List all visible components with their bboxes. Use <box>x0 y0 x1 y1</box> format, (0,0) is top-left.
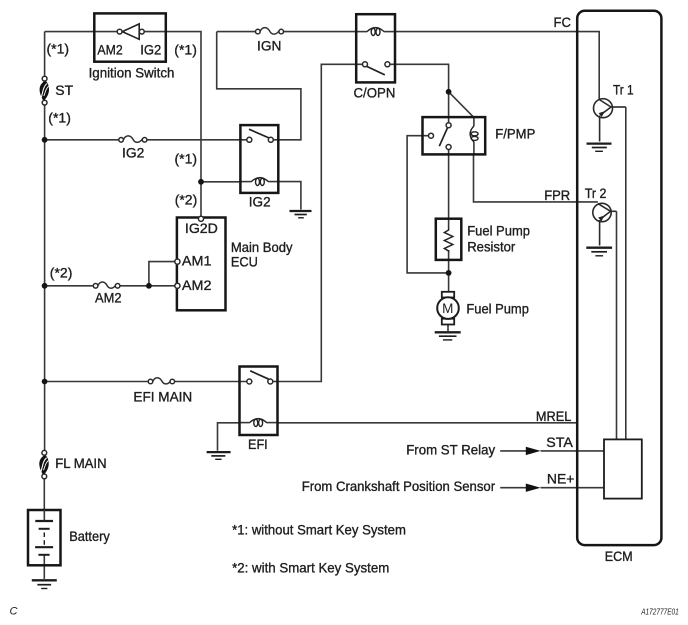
svg-text:Tr 2: Tr 2 <box>585 185 607 201</box>
svg-text:IG2: IG2 <box>140 42 161 58</box>
svg-text:(*1): (*1) <box>175 151 198 167</box>
svg-text:FL MAIN: FL MAIN <box>55 455 106 471</box>
svg-text:STA: STA <box>546 434 573 450</box>
svg-text:MREL: MREL <box>536 408 572 424</box>
svg-text:(*1): (*1) <box>48 110 71 126</box>
svg-text:Tr 1: Tr 1 <box>613 82 634 98</box>
svg-text:AM2: AM2 <box>97 42 122 58</box>
svg-text:AM2: AM2 <box>95 290 122 306</box>
svg-text:Resistor: Resistor <box>467 239 515 255</box>
svg-text:(*2): (*2) <box>50 265 73 281</box>
svg-text:EFI: EFI <box>248 436 268 452</box>
svg-text:A172777E01: A172777E01 <box>640 606 679 616</box>
svg-text:ECU: ECU <box>231 254 258 270</box>
svg-text:C/OPN: C/OPN <box>354 85 396 101</box>
svg-text:Fuel Pump: Fuel Pump <box>467 223 530 239</box>
svg-text:From Crankshaft Position Senso: From Crankshaft Position Sensor <box>302 478 496 494</box>
svg-text:NE+: NE+ <box>547 471 575 487</box>
svg-text:IGN: IGN <box>257 38 281 54</box>
svg-text:Ignition Switch: Ignition Switch <box>89 65 175 81</box>
svg-text:C: C <box>10 606 18 618</box>
svg-text:AM2: AM2 <box>182 277 212 293</box>
svg-text:(*1): (*1) <box>174 42 197 58</box>
svg-text:FPR: FPR <box>544 187 570 203</box>
svg-text:ST: ST <box>55 82 73 98</box>
svg-text:*1: without Smart Key System: *1: without Smart Key System <box>232 522 406 538</box>
svg-text:*2: with Smart Key System: *2: with Smart Key System <box>232 560 389 576</box>
svg-text:(*2): (*2) <box>175 192 198 208</box>
svg-text:IG2: IG2 <box>122 145 144 161</box>
svg-text:ECM: ECM <box>605 548 633 564</box>
svg-text:F/PMP: F/PMP <box>495 126 535 142</box>
svg-text:(*1): (*1) <box>47 41 70 57</box>
svg-text:IG2D: IG2D <box>185 220 218 236</box>
svg-text:Battery: Battery <box>69 528 110 544</box>
svg-text:AM1: AM1 <box>182 253 212 269</box>
svg-text:M: M <box>442 301 453 316</box>
svg-text:From ST Relay: From ST Relay <box>406 442 495 458</box>
svg-text:IG2: IG2 <box>249 194 271 210</box>
svg-text:FC: FC <box>554 14 571 30</box>
svg-text:Fuel Pump: Fuel Pump <box>466 301 529 317</box>
svg-text:EFI MAIN: EFI MAIN <box>133 389 192 405</box>
